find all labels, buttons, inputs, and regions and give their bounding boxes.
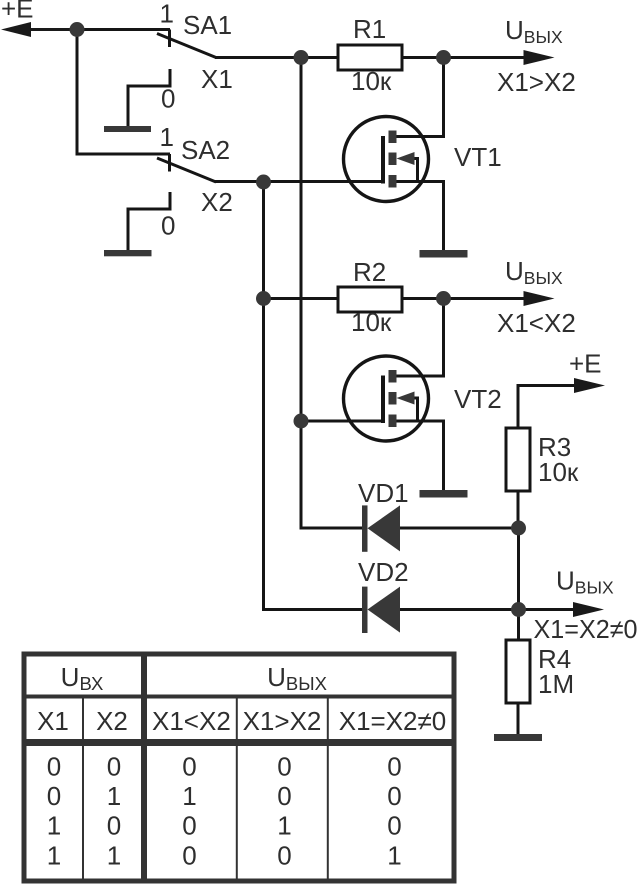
node E X1 at VT2 gate [294, 414, 309, 429]
wire VT1 source to ground [397, 182, 444, 251]
wire VT2 gate from X1 bus [301, 420, 383, 423]
wire node to VD2 node [517, 528, 520, 610]
svg-text:UВЫХ: UВЫХ [505, 15, 563, 47]
SA1 contact 0 branch to ground [128, 69, 170, 127]
table thick divider X2|outputs [141, 654, 147, 879]
node E2 X2 at R2 [256, 291, 271, 306]
resistor R4 [506, 640, 530, 703]
svg-text:VT1: VT1 [454, 142, 502, 172]
svg-text:X1: X1 [201, 64, 233, 94]
ground VT1 source [420, 250, 468, 258]
svg-text:X1<X2: X1<X2 [152, 706, 231, 736]
node H output VD2 R4 [511, 602, 526, 617]
svg-text:0: 0 [182, 752, 196, 782]
svg-text:0: 0 [47, 781, 61, 811]
transistor VT1 circle [344, 117, 429, 202]
SA1 contact 1 tick [168, 30, 171, 48]
svg-text:10к: 10к [351, 66, 392, 96]
truth table frame [24, 654, 454, 881]
svg-text:1: 1 [160, 122, 174, 152]
resistor R3 [506, 428, 530, 491]
svg-text:0: 0 [277, 841, 291, 871]
arrow output X1>X2 [524, 50, 555, 65]
SA2 contact 1 tick [168, 154, 171, 172]
svg-text:1: 1 [47, 811, 61, 841]
svg-text:0: 0 [387, 752, 401, 782]
svg-text:X1: X1 [37, 706, 69, 736]
table divider col3|col4 [236, 697, 238, 880]
wire R4 bottom to ground [517, 703, 520, 736]
svg-text:X1>X2: X1>X2 [243, 706, 322, 736]
wire R4 top [517, 610, 520, 641]
svg-text:0: 0 [182, 841, 196, 871]
VT1 substrate stub [389, 153, 397, 166]
arrow output X1=X2 [573, 602, 604, 617]
svg-text:0: 0 [182, 811, 196, 841]
wire VT2 drain up [397, 299, 444, 377]
VT2 source stub [389, 415, 397, 428]
table divider X1|X2 [82, 697, 84, 880]
VT2 gate bar [381, 376, 385, 424]
node D X2 at SA2 pole [256, 175, 271, 190]
svg-text:SA2: SA2 [181, 135, 230, 165]
svg-text:0: 0 [387, 811, 401, 841]
wire +E branch to R3 [518, 386, 578, 429]
wire X2 bus vertical [264, 182, 363, 610]
ground R4 [494, 734, 542, 741]
node G R3 bottom VD1 [511, 521, 526, 536]
svg-text:R1: R1 [353, 14, 386, 44]
wire output X1=X2 [519, 608, 579, 611]
SA2 contact 0 branch to ground [128, 192, 170, 251]
svg-text:0: 0 [107, 752, 121, 782]
table header divider row1 [24, 695, 454, 699]
wire SA2 pole to VT1 gate [215, 180, 383, 183]
svg-text:1: 1 [47, 841, 61, 871]
svg-text:1: 1 [387, 841, 401, 871]
svg-text:0: 0 [161, 211, 175, 241]
svg-text:1M: 1M [538, 669, 574, 699]
VT2 drain stub [389, 370, 397, 383]
svg-text:1: 1 [182, 781, 196, 811]
svg-text:UВХ: UВХ [61, 662, 104, 694]
ground SA1 [104, 126, 151, 132]
switch SA2 lever [157, 158, 216, 182]
svg-text:X2: X2 [96, 706, 128, 736]
VT1 drain stub [389, 131, 397, 144]
wire R1 right to output [402, 56, 528, 59]
node F R2 output [436, 291, 451, 306]
wire SA1 pole to node X1 [215, 56, 338, 59]
svg-text:10к: 10к [538, 457, 579, 487]
diode VD2 [368, 587, 401, 633]
svg-text:VD2: VD2 [358, 557, 409, 587]
svg-text:+E: +E [569, 349, 602, 379]
wire VD2 anode to node [400, 608, 519, 611]
VT1 source stub [389, 175, 397, 188]
wire feed drop to SA2 [77, 30, 170, 155]
wire R2 right to output [402, 297, 528, 300]
VT2 substrate link [404, 398, 418, 421]
svg-text:10к: 10к [351, 307, 392, 337]
table thick divider under row2 [24, 739, 454, 746]
svg-text:VT2: VT2 [454, 384, 502, 414]
VT1 substrate arrow [397, 152, 415, 165]
arrow output X1&lt;X2 [524, 291, 555, 306]
svg-text:X1=X2≠0: X1=X2≠0 [339, 706, 447, 736]
wire +E feed rail [28, 28, 170, 31]
node A feed split [70, 22, 85, 37]
svg-text:1: 1 [277, 811, 291, 841]
wire VT2 source to ground [397, 421, 444, 490]
svg-text:1: 1 [107, 781, 121, 811]
VT2 substrate stub [389, 392, 397, 405]
switch SA1 lever [157, 34, 216, 58]
svg-text:X2: X2 [201, 187, 233, 217]
svg-text:UВЫХ: UВЫХ [556, 566, 614, 598]
ground VT2 source [420, 490, 468, 498]
svg-text:0: 0 [387, 781, 401, 811]
resistor R2 [338, 287, 402, 312]
arrow +E left [1, 22, 31, 37]
wire VT1 drain up [397, 58, 444, 137]
wire VD1 anode to node [400, 527, 519, 530]
svg-text:0: 0 [277, 752, 291, 782]
wire X1 bus vertical [301, 58, 363, 529]
svg-text:X1<X2: X1<X2 [497, 308, 576, 338]
VT1 gate bar [381, 136, 385, 184]
node B X1 at R1 [294, 50, 309, 65]
svg-text:R2: R2 [353, 257, 386, 287]
wire R3 bottom to node [517, 491, 520, 528]
svg-text:VD1: VD1 [358, 478, 409, 508]
ground SA2 [104, 250, 152, 256]
VT2 substrate arrow [397, 392, 415, 405]
wire R2 left from X2 bus [264, 297, 339, 300]
svg-text:+E: +E [1, 0, 34, 24]
svg-text:0: 0 [107, 811, 121, 841]
svg-text:UВЫХ: UВЫХ [505, 256, 563, 288]
diode VD1 [368, 505, 401, 551]
svg-text:UВЫХ: UВЫХ [267, 662, 327, 694]
svg-text:SA1: SA1 [183, 10, 232, 40]
node C R1 output [436, 50, 451, 65]
svg-text:X1>X2: X1>X2 [497, 67, 576, 97]
arrow +E right [574, 378, 605, 393]
VT1 substrate link [404, 159, 418, 182]
table divider col4|col5 [327, 697, 329, 880]
svg-text:1: 1 [107, 841, 121, 871]
svg-text:0: 0 [161, 84, 175, 114]
resistor R1 [338, 45, 402, 70]
svg-text:X1=X2≠0: X1=X2≠0 [534, 614, 638, 644]
transistor VT2 circle [344, 356, 429, 441]
svg-text:1: 1 [160, 0, 174, 29]
svg-text:0: 0 [277, 781, 291, 811]
svg-text:0: 0 [47, 752, 61, 782]
